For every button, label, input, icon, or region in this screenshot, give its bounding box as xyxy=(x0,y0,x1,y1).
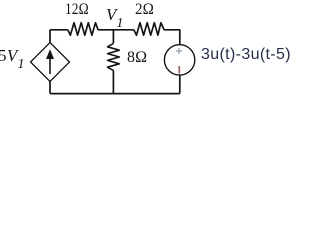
resistor R2 2ohm xyxy=(134,23,164,36)
current arrow inside source xyxy=(49,57,51,74)
resistor R3 8ohm xyxy=(108,43,120,70)
wire node V1 stub xyxy=(112,30,114,44)
plus sign inside voltage source xyxy=(176,50,182,52)
resistor R1 12ohm xyxy=(68,23,98,36)
wire right vertical bottom xyxy=(179,75,181,94)
label 2 ohm xyxy=(135,1,154,19)
wire top middle segment xyxy=(98,29,134,31)
source label 3u(t)-3u(t-5) xyxy=(201,46,291,64)
wire left vertical top xyxy=(49,30,51,43)
wire bottom segment xyxy=(50,93,180,95)
minus mark inside voltage source xyxy=(178,66,180,74)
wire left vertical bottom xyxy=(49,82,51,94)
dependent current source U1 diamond xyxy=(31,43,70,82)
label 8 ohm xyxy=(127,49,147,67)
voltage source V2 circle xyxy=(164,45,194,75)
node label V1 xyxy=(106,5,123,32)
label 12 ohm xyxy=(65,1,89,19)
wire top-left segment xyxy=(50,29,68,31)
wire middle bottom segment xyxy=(112,70,114,93)
wire top-right segment xyxy=(164,30,180,45)
source label 5V1 xyxy=(0,46,25,73)
